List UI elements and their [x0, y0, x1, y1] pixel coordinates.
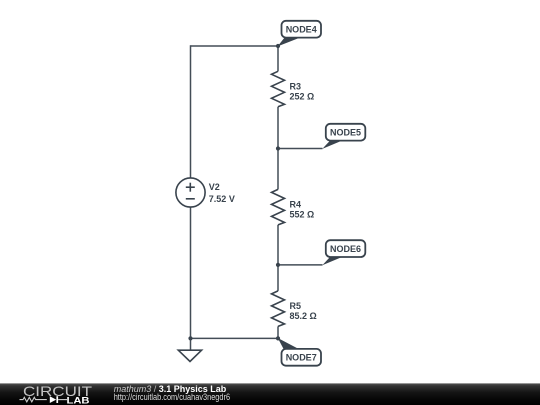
wire right between R4 and R5 [277, 225, 279, 291]
svg-text:V2: V2 [209, 182, 220, 192]
svg-text:NODE7: NODE7 [286, 353, 317, 363]
wire stub NODE5 [278, 148, 323, 150]
node NODE4 flag [278, 21, 321, 47]
svg-text:NODE5: NODE5 [330, 128, 361, 138]
node NODE7 flag [278, 338, 321, 366]
voltage source V2 [176, 178, 205, 207]
resistor R5 [272, 291, 285, 327]
label R5 value [290, 301, 317, 321]
wire right vertical top [277, 45, 279, 71]
svg-text:252 Ω: 252 Ω [290, 92, 315, 102]
junction dot node5 [276, 146, 280, 150]
svg-text:7.52 V: 7.52 V [209, 194, 235, 204]
resistor R3 [272, 71, 285, 107]
label R3 value [290, 82, 315, 102]
svg-text:R4: R4 [290, 200, 302, 210]
logo diode [50, 396, 56, 403]
junction dot node6 [276, 263, 280, 267]
footer bar [0, 383, 540, 405]
svg-text:NODE4: NODE4 [286, 25, 317, 35]
junction dot ground [188, 336, 192, 340]
svg-text:R5: R5 [290, 301, 302, 311]
svg-text:NODE6: NODE6 [330, 244, 361, 254]
wire top horizontal [191, 45, 279, 47]
label R4 value [290, 200, 315, 220]
label V2 value [209, 182, 235, 204]
svg-text:85.2 Ω: 85.2 Ω [290, 311, 317, 321]
wire right between R3 and R4 [277, 107, 279, 190]
svg-text:552 Ω: 552 Ω [290, 210, 315, 220]
wire stub NODE6 [278, 264, 323, 266]
svg-text:http://circuitlab.com/cuahav3n: http://circuitlab.com/cuahav3negdr6 [114, 393, 231, 403]
logo resistor zigzag [20, 397, 47, 402]
ground [178, 350, 201, 361]
junction dot node7 [276, 336, 280, 340]
footer line2 [114, 393, 231, 403]
wire bottom horizontal [191, 337, 279, 339]
junction dot node4 [276, 44, 280, 48]
footer line1 [114, 384, 227, 394]
node NODE5 flag [322, 124, 365, 149]
resistor R4 [272, 189, 285, 225]
wire left vertical upper [190, 45, 192, 178]
node NODE6 flag [322, 240, 365, 265]
svg-text:R3: R3 [290, 82, 302, 92]
svg-text:LAB: LAB [67, 395, 90, 405]
wire right below R5 [277, 326, 279, 338]
wire left vertical lower [190, 207, 192, 350]
